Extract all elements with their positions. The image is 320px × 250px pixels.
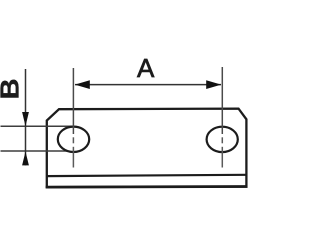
svg-text:A: A [137,53,155,83]
svg-text:B: B [0,78,24,99]
